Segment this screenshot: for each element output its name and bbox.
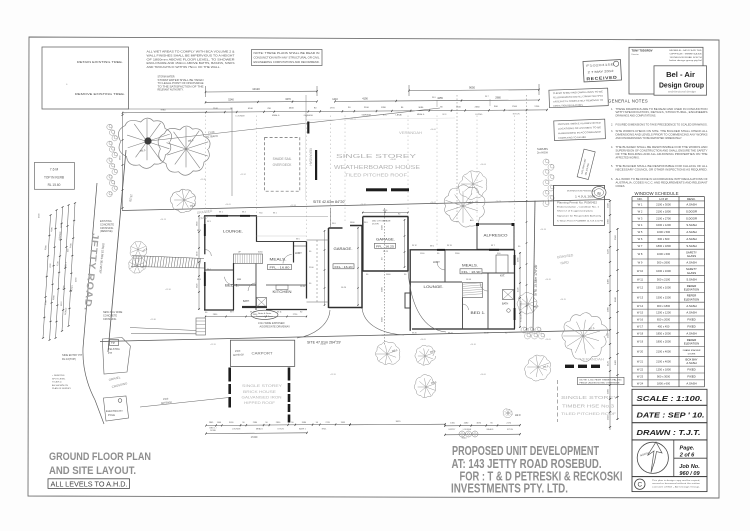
svg-text:1850 x 2000: 1850 x 2000 — [656, 331, 671, 335]
existing house north ghost outline — [305, 120, 307, 200]
site boundary west (frontage) — [108, 150, 126, 352]
title block: Bel-Air Design Group — [629, 47, 703, 94]
svg-text:GARAGE.: GARAGE. — [334, 247, 353, 251]
svg-text:1500: 1500 — [607, 332, 609, 338]
svg-text:3470: 3470 — [285, 98, 291, 101]
svg-text:TO A.H.D.: TO A.H.D. — [52, 381, 62, 384]
carport post bars west — [228, 368, 231, 382]
svg-text:1200 x 1200: 1200 x 1200 — [656, 311, 671, 315]
unit 1 lounge walls — [204, 215, 257, 216]
svg-text:2610: 2610 — [607, 414, 609, 420]
svg-text:W 14: W 14 — [637, 304, 644, 308]
svg-text:LDRY: LDRY — [433, 260, 440, 264]
unit 2 stairs hatch — [463, 283, 483, 298]
svg-text:reused or borrowed without the: reused or borrowed without the written — [652, 482, 700, 485]
svg-text:ELECTRICITY: ELECTRICITY — [106, 409, 123, 413]
svg-text:TILED PITCHED ROOF: TILED PITCHED ROOF — [345, 173, 408, 178]
svg-text:FENCE UNLESS NOTED OTHERWISE: FENCE UNLESS NOTED OTHERWISE — [580, 382, 621, 384]
unit 2 windows top — [437, 249, 445, 251]
svg-text:LOUNGE: LOUNGE — [235, 115, 245, 117]
svg-text:FIXED: FIXED — [687, 368, 695, 372]
unit 1 south perimeter chain — [205, 316, 307, 318]
svg-text:GARAGE: GARAGE — [304, 114, 314, 117]
svg-text:17240: 17240 — [251, 436, 258, 439]
svg-text:2360: 2360 — [475, 106, 481, 108]
svg-text:1800 x 2000: 1800 x 2000 — [656, 340, 671, 344]
svg-text:ELEVATION: ELEVATION — [684, 297, 699, 301]
svg-text:C: C — [637, 482, 642, 489]
svg-text:ALFRESCO: ALFRESCO — [484, 234, 508, 238]
svg-text:+15.80: +15.80 — [150, 319, 156, 321]
svg-text:Page.: Page. — [680, 446, 695, 452]
north arrow — [648, 442, 663, 473]
svg-text:W 18: W 18 — [637, 331, 644, 335]
svg-text:A.SASH: A.SASH — [686, 361, 696, 365]
svg-text:Job No.: Job No. — [679, 464, 700, 470]
svg-text:ROBE: ROBE — [210, 430, 216, 432]
svg-text:1500 x 1000: 1500 x 1000 — [656, 286, 671, 290]
svg-text:AGGREGATE DRIVEWAY: AGGREGATE DRIVEWAY — [260, 325, 291, 329]
svg-text:OVER DECK: OVER DECK — [273, 163, 293, 167]
svg-text:W 10: W 10 — [637, 269, 644, 273]
unit 2 north garage chain — [362, 212, 408, 214]
top dimension rail overall right 9050 — [409, 89, 539, 92]
svg-text:S.DOOR: S.DOOR — [686, 209, 697, 213]
sheet border — [28, 37, 719, 498]
svg-text:2100: 2100 — [364, 107, 370, 109]
right dimension chains — [609, 200, 611, 430]
svg-text:CODES.: CODES. — [616, 185, 626, 188]
svg-text:5240: 5240 — [228, 99, 234, 102]
svg-text:KITCH: KITCH — [507, 429, 514, 431]
svg-text:VERANDAH: VERANDAH — [580, 358, 605, 362]
svg-text:SINGLE STOREY: SINGLE STOREY — [561, 395, 619, 401]
svg-text:5560: 5560 — [615, 234, 617, 240]
svg-text:+16.20: +16.20 — [545, 279, 551, 281]
unit 2 door arcs — [437, 262, 445, 270]
svg-text:DOOR: DOOR — [372, 223, 379, 225]
svg-text:4490: 4490 — [607, 278, 609, 284]
svg-text:16.20: 16.20 — [341, 287, 347, 289]
svg-text:WALL FINISHES SHALL BE IMPERVI: WALL FINISHES SHALL BE IMPERVIOUS TO A H… — [147, 54, 236, 57]
electricity pole — [103, 396, 128, 421]
bottom dimension rail unit1 — [206, 424, 350, 425]
svg-text:+16.04: +16.04 — [480, 164, 486, 166]
unit 2 partitions — [444, 250, 446, 282]
scale box — [632, 389, 707, 405]
setback line 4500 — [140, 398, 229, 408]
svg-text:NOTE: 1.8m HIGH TIMBER PALING: NOTE: 1.8m HIGH TIMBER PALING — [580, 378, 622, 381]
svg-text:MEALS.: MEALS. — [417, 113, 425, 116]
tree H3.0 south a — [375, 342, 399, 365]
svg-text:3090: 3090 — [382, 286, 384, 292]
unit 2 bay window — [405, 293, 411, 308]
svg-text:SHRUBS: SHRUBS — [537, 147, 548, 151]
svg-text:SHADE SAIL: SHADE SAIL — [273, 157, 292, 161]
svg-text:NECESSARY COUNCIL OR OTHER INS: NECESSARY COUNCIL OR OTHER INSPECTIONS A… — [616, 169, 708, 172]
svg-text:A.SASH: A.SASH — [686, 261, 696, 265]
drawn box — [632, 423, 707, 440]
svg-text:MEALS.: MEALS. — [462, 263, 478, 268]
svg-text:A.SASH: A.SASH — [686, 202, 696, 206]
svg-text:3090: 3090 — [418, 107, 424, 109]
svg-text:A.SASH: A.SASH — [686, 304, 696, 308]
svg-text:W 4: W 4 — [638, 223, 643, 227]
svg-text:4600: 4600 — [289, 108, 295, 110]
svg-text:4255: 4255 — [437, 97, 443, 100]
svg-text:16.25: 16.25 — [383, 251, 389, 253]
tree H6.0 south — [525, 355, 551, 381]
svg-text:A.SASH: A.SASH — [686, 237, 696, 241]
svg-text:+15.98: +15.98 — [290, 205, 296, 207]
svg-text:CROSSING: CROSSING — [103, 318, 116, 321]
svg-text:DESC.: DESC. — [687, 197, 696, 201]
svg-text:NO.: NO. — [637, 197, 642, 201]
site boundary north — [122, 200, 610, 211]
svg-text:1 4 JUL 2009: 1 4 JUL 2009 — [575, 195, 596, 199]
svg-text:900 x 3000: 900 x 3000 — [657, 375, 671, 379]
svg-text:SIDE ENTRY PIT: SIDE ENTRY PIT — [62, 353, 83, 357]
svg-text:ENCLOSURE AND 150mm ABOVE BATH: ENCLOSURE AND 150mm ABOVE BATHS, BASINS,… — [147, 62, 235, 65]
unit 2 east perimeter chains — [519, 252, 521, 328]
svg-text:KIT.: KIT. — [500, 274, 505, 278]
svg-text:ENGINEERING COMPUTATIONS AND R: ENGINEERING COMPUTATIONS AND RECOMMEND. — [254, 61, 320, 64]
svg-text:1700: 1700 — [534, 106, 540, 108]
planter circles — [459, 431, 465, 437]
stamp dp emblem — [592, 187, 606, 199]
walkway trees H2.0 — [130, 242, 147, 259]
svg-text:5660: 5660 — [382, 316, 384, 322]
svg-text:650 x 2000: 650 x 2000 — [657, 318, 671, 322]
svg-text:AFFECTED WORKS.: AFFECTED WORKS. — [616, 156, 640, 159]
levels note box — [48, 479, 130, 489]
svg-text:+16.00: +16.00 — [320, 344, 326, 346]
grate and drain oval note — [251, 310, 278, 319]
svg-text:BATH: BATH — [502, 303, 508, 306]
svg-text:+16.02: +16.02 — [430, 202, 436, 204]
svg-text:1000 x 500: 1000 x 500 — [657, 230, 671, 234]
svg-text:consent of Bel - Air Design Gr: consent of Bel - Air Design Group. — [652, 485, 701, 488]
svg-text:(REMOVE): (REMOVE) — [100, 230, 113, 233]
svg-text:W 6: W 6 — [638, 237, 643, 241]
svg-text:Design Group: Design Group — [659, 81, 704, 90]
svg-text:Sheet 2 of 6 approved plans: Sheet 2 of 6 approved plans — [557, 210, 594, 213]
svg-text:TO THE SATISFACTION OF THE: TO THE SATISFACTION OF THE — [158, 85, 205, 88]
unit 1 north windows — [216, 215, 228, 217]
svg-text:PIT: PIT — [108, 351, 112, 355]
svg-text:2100 x 4000: 2100 x 4000 — [656, 359, 671, 363]
unit 1 west windows — [204, 224, 206, 236]
svg-text:CONJUNCTION WITH ANY STRUCTURA: CONJUNCTION WITH ANY STRUCTURAL OR CIVIL — [254, 56, 321, 59]
svg-text:S.DOOR: S.DOOR — [686, 216, 697, 220]
svg-text:+16.08: +16.08 — [495, 201, 501, 203]
unit 1 west wall — [204, 262, 205, 310]
svg-text:This plan is design copy and b: This plan is design copy and be copied, — [652, 480, 701, 482]
svg-text:103 NELSON ROAD SOUTH: 103 NELSON ROAD SOUTH — [670, 56, 702, 59]
top dimension rail overall left 10120 — [206, 90, 318, 93]
svg-text:2980: 2980 — [495, 96, 501, 99]
driveway edge curves — [297, 310, 330, 338]
svg-text:GALVANISED IRON: GALVANISED IRON — [242, 396, 283, 400]
svg-text:+ DENOTES: + DENOTES — [52, 375, 65, 377]
svg-text:6.: 6. — [611, 178, 613, 181]
kerb level box 7.6M — [34, 163, 74, 190]
svg-text:STORM WATER:: STORM WATER: — [158, 76, 176, 79]
svg-text:BRICK HOUSE: BRICK HOUSE — [243, 390, 277, 394]
svg-text:S.SASH: S.SASH — [686, 277, 696, 281]
svg-text:4120: 4120 — [607, 360, 609, 366]
bottom dimension rail total 17240 — [206, 432, 307, 435]
neighbour east wall dashes — [565, 365, 574, 368]
svg-text:GENERAL NOTES: GENERAL NOTES — [608, 99, 648, 105]
left vertical dimension chains — [43, 215, 51, 338]
neighbour fence dashed — [557, 380, 559, 422]
svg-text:TONY TODOROV: TONY TODOROV — [632, 50, 653, 53]
svg-text:2100: 2100 — [512, 106, 518, 108]
svg-text:TELSTRA: TELSTRA — [108, 347, 120, 351]
svg-text:S.SASH: S.SASH — [686, 223, 696, 227]
svg-text:+15.95: +15.95 — [330, 374, 336, 376]
verandah wall bar — [307, 122, 309, 134]
svg-text:6420: 6420 — [615, 359, 617, 365]
unit 2 windows east — [514, 255, 516, 265]
svg-text:DRAWN : T.J.T.: DRAWN : T.J.T. — [637, 428, 701, 437]
svg-text:RL 15.60: RL 15.60 — [48, 183, 61, 187]
svg-text:4.: 4. — [611, 146, 613, 149]
svg-text:AUSTRALIA, CODES N.C.C. AND RE: AUSTRALIA, CODES N.C.C. AND REQUIREMENTS… — [616, 182, 709, 185]
svg-text:2100 x 3000: 2100 x 3000 — [656, 202, 671, 206]
svg-text:W 12: W 12 — [637, 286, 644, 290]
garage gap chains — [324, 230, 326, 306]
svg-text:16.80: 16.80 — [300, 286, 306, 288]
svg-text:OFFICE: 9999 6433: OFFICE: 9999 6433 — [670, 53, 703, 55]
svg-text:SINGLE STOREY: SINGLE STOREY — [336, 154, 416, 160]
svg-text:+16.13: +16.13 — [160, 219, 166, 221]
tree H8.0 front — [158, 126, 210, 175]
svg-text:450 x 450: 450 x 450 — [658, 324, 670, 328]
svg-text:AND TROUGHS IF WITHIN 75mm OF: AND TROUGHS IF WITHIN 75mm OF THE WALL. — [147, 66, 221, 69]
svg-text:FIGURED DIMENSIONS TO TAKE PRE: FIGURED DIMENSIONS TO TAKE PRECEDENCE TO… — [616, 124, 708, 127]
svg-text:1770: 1770 — [330, 107, 336, 109]
unit 1 door arcs — [225, 277, 234, 285]
svg-text:4500: 4500 — [235, 350, 241, 353]
house west wall bar — [315, 150, 317, 180]
svg-text:WEATHERBOARD HOUSE: WEATHERBOARD HOUSE — [334, 165, 420, 171]
svg-text:1800 x 600: 1800 x 600 — [657, 381, 671, 385]
svg-text:16.90: 16.90 — [466, 279, 472, 281]
existing house north wall bars — [366, 188, 387, 191]
tree H3.0 south c — [414, 375, 435, 398]
svg-text:3900: 3900 — [607, 388, 609, 394]
shrubs 2m high — [543, 159, 549, 165]
svg-text:BATH 1: BATH 1 — [299, 428, 307, 431]
svg-text:W 17: W 17 — [637, 324, 644, 328]
unit 1 east wall — [306, 242, 307, 299]
svg-text:+16.05: +16.05 — [545, 339, 551, 341]
svg-text:RETAIN EXISTING TREE.: RETAIN EXISTING TREE. — [77, 60, 123, 64]
svg-text:WIR: WIR — [237, 279, 242, 281]
svg-text:ALF.: ALF. — [470, 219, 474, 222]
svg-text:MEALS.: MEALS. — [272, 114, 280, 117]
svg-text:W 24: W 24 — [637, 381, 644, 385]
svg-text:4100: 4100 — [248, 108, 254, 110]
svg-text:1500: 1500 — [607, 202, 609, 208]
svg-text:TOP IN KERB: TOP IN KERB — [44, 176, 64, 180]
svg-text:W 9: W 9 — [638, 261, 643, 265]
svg-text:AND DISCREPANCIES TO BE REPORT: AND DISCREPANCIES TO BE REPORTED IMMEDIA… — [616, 137, 683, 140]
svg-text:ALL WET AREAS TO COMPLY WITH B: ALL WET AREAS TO COMPLY WITH BCA VOLUME … — [147, 51, 235, 54]
svg-text:FIXED: FIXED — [687, 318, 695, 322]
svg-text:RL:16(TOP): RL:16(TOP) — [62, 357, 76, 361]
svg-text:LOUNGE: LOUNGE — [463, 429, 472, 431]
svg-text:FFL : 16.20: FFL : 16.20 — [335, 265, 353, 269]
svg-text:8640: 8640 — [615, 296, 617, 302]
copyright box — [632, 477, 707, 492]
svg-text:ENTRY: ENTRY — [449, 429, 456, 431]
tree H6.0 front — [118, 118, 171, 168]
svg-text:W 8: W 8 — [638, 252, 643, 256]
svg-text:SITE 42.63m 84°20': SITE 42.63m 84°20' — [313, 200, 345, 204]
svg-text:GLASS: GLASS — [687, 271, 696, 275]
svg-text:TIMBER HSE No.3: TIMBER HSE No.3 — [562, 404, 615, 409]
neighbour fence note box — [578, 377, 625, 384]
svg-text:KITCH.: KITCH. — [278, 429, 285, 431]
top dimension rail room level — [206, 110, 547, 112]
svg-text:MOBILE: 0413 349 765: MOBILE: 0413 349 765 — [670, 50, 703, 52]
svg-text:9240: 9240 — [462, 437, 468, 439]
svg-text:ENS.: ENS. — [322, 429, 327, 431]
note box 1 (demolition) — [549, 88, 608, 108]
svg-text:3615: 3615 — [396, 421, 402, 423]
svg-text:DATE : SEP ' 10.: DATE : SEP ' 10. — [637, 411, 705, 420]
svg-text:1000 x 600: 1000 x 600 — [657, 252, 671, 256]
svg-text:+16.18: +16.18 — [540, 229, 546, 231]
svg-text:FFL : 16.90: FFL : 16.90 — [462, 270, 481, 274]
unit 2 alfresco — [477, 224, 514, 249]
svg-text:W 2: W 2 — [638, 209, 643, 213]
svg-text:SITE 15.54m 174°28': SITE 15.54m 174°28' — [534, 264, 539, 296]
unit 2 main walls — [410, 249, 515, 250]
svg-text:+16.15: +16.15 — [560, 299, 566, 301]
svg-text:+15.90: +15.90 — [165, 289, 171, 291]
svg-text:1.: 1. — [611, 108, 613, 111]
svg-text:ELEVATION: ELEVATION — [684, 288, 699, 292]
unit 2 wm circle — [507, 309, 511, 313]
leader line box to plan — [128, 108, 232, 110]
svg-text:4190: 4190 — [362, 97, 368, 100]
svg-text:2100 x 1800: 2100 x 1800 — [656, 209, 671, 213]
svg-text:OF 1800mm ABOVE FLOOR LEVEL, T: OF 1800mm ABOVE FLOOR LEVEL, TO SHOWER — [147, 58, 235, 61]
tree spiral top centre — [458, 171, 487, 200]
svg-text:2980: 2980 — [607, 306, 609, 312]
svg-text:LIVING: LIVING — [475, 114, 482, 116]
svg-text:960 / 09: 960 / 09 — [679, 471, 700, 477]
unit 1 bath robe cross — [257, 298, 267, 308]
west corner dimension chain — [122, 114, 124, 211]
svg-text:A.SASH: A.SASH — [686, 230, 696, 234]
svg-text:Director: Director — [632, 53, 640, 56]
svg-text:+15.95: +15.95 — [210, 344, 216, 346]
svg-text:1500 x 1500: 1500 x 1500 — [656, 295, 671, 299]
svg-text:HIPPED ROOF: HIPPED ROOF — [244, 401, 275, 405]
unit 1 west perimeter chain — [198, 215, 200, 310]
svg-text:VERANDAH: VERANDAH — [309, 148, 313, 166]
deck edge line — [257, 216, 329, 218]
svg-text:W 13: W 13 — [637, 295, 644, 299]
svg-text:+16.05: +16.05 — [420, 339, 426, 341]
svg-text:9050: 9050 — [469, 85, 475, 89]
date box — [632, 405, 707, 422]
unit 2 garage — [362, 217, 364, 272]
svg-text:Bel - Air: Bel - Air — [666, 70, 695, 79]
svg-text:5.: 5. — [611, 165, 613, 168]
svg-text:DOORS: DOORS — [688, 353, 696, 355]
tree H2.0 south small — [503, 409, 512, 418]
svg-text:2-BANK STACKER: 2-BANK STACKER — [683, 349, 701, 352]
svg-text:KITCH.: KITCH. — [513, 114, 521, 116]
svg-text:10120: 10120 — [252, 87, 260, 91]
svg-text:3220: 3220 — [607, 248, 609, 254]
svg-text:LOUNGE.: LOUNGE. — [424, 284, 444, 289]
svg-text:Planning Permit No. P09/0452: Planning Permit No. P09/0452 — [557, 202, 598, 205]
svg-text:GROUND FLOOR PLAN: GROUND FLOOR PLAN — [49, 451, 151, 463]
tree H2.0 yard — [517, 292, 537, 314]
svg-text:W 22: W 22 — [637, 368, 644, 372]
svg-text:H X W: H X W — [659, 197, 668, 201]
walkway hatch — [132, 256, 204, 259]
svg-text:W.C.: W.C. — [442, 114, 447, 116]
svg-text:ELEVATION: ELEVATION — [684, 342, 699, 346]
svg-text:H2.0: H2.0 — [515, 413, 521, 417]
unit 2 robe cross — [503, 290, 514, 300]
svg-text:BATH: BATH — [243, 300, 249, 303]
svg-text:TP: TP — [111, 341, 115, 345]
shrubs south east corner — [521, 327, 527, 333]
svg-text:W 3: W 3 — [638, 216, 643, 220]
boxed note: plans read with engineering — [252, 50, 323, 66]
centre vertical dimension chain — [384, 208, 386, 345]
unit 1 stairs hatch — [234, 254, 263, 264]
svg-text:GLASS: GLASS — [687, 254, 696, 258]
svg-text:+15.92: +15.92 — [240, 174, 246, 176]
svg-text:FIXED: FIXED — [687, 324, 695, 328]
tree H3.0 south b — [415, 345, 436, 365]
tree H3.0 road — [170, 189, 195, 213]
svg-text:W 19: W 19 — [637, 340, 644, 344]
svg-text:9780: 9780 — [161, 110, 167, 112]
svg-text:W 21: W 21 — [637, 359, 644, 363]
svg-text:500 x 2100: 500 x 2100 — [657, 277, 671, 281]
svg-text:1800 x 1800: 1800 x 1800 — [656, 244, 671, 248]
svg-text:B.C.: B.C. — [383, 114, 388, 116]
unit 1 south walls — [204, 309, 234, 310]
svg-text:W 7: W 7 — [638, 244, 643, 248]
svg-text:STORM WATER SHALL BE TAKEN: STORM WATER SHALL BE TAKEN — [158, 79, 204, 82]
svg-text:3.: 3. — [611, 130, 613, 133]
site boundary east — [533, 201, 535, 331]
svg-text:BED 1.: BED 1. — [471, 310, 486, 315]
svg-text:architectural design: architectural design — [668, 90, 696, 94]
unit 1 garage — [328, 228, 330, 308]
unit 1 porch between — [307, 239, 329, 241]
svg-text:W 1: W 1 — [638, 202, 643, 206]
svg-text:SINGLE STOREY: SINGLE STOREY — [242, 383, 282, 388]
svg-text:TO LEGAL POINT OF DISCHARGE: TO LEGAL POINT OF DISCHARGE — [158, 82, 205, 85]
carport post bars east — [288, 368, 291, 381]
svg-text:Signature for Responsible Auth: Signature for Responsible Authority — [557, 215, 602, 218]
svg-text:dp: dp — [597, 191, 601, 195]
svg-text:ALL LEVELS TO A.H.D.: ALL LEVELS TO A.H.D. — [51, 480, 128, 489]
